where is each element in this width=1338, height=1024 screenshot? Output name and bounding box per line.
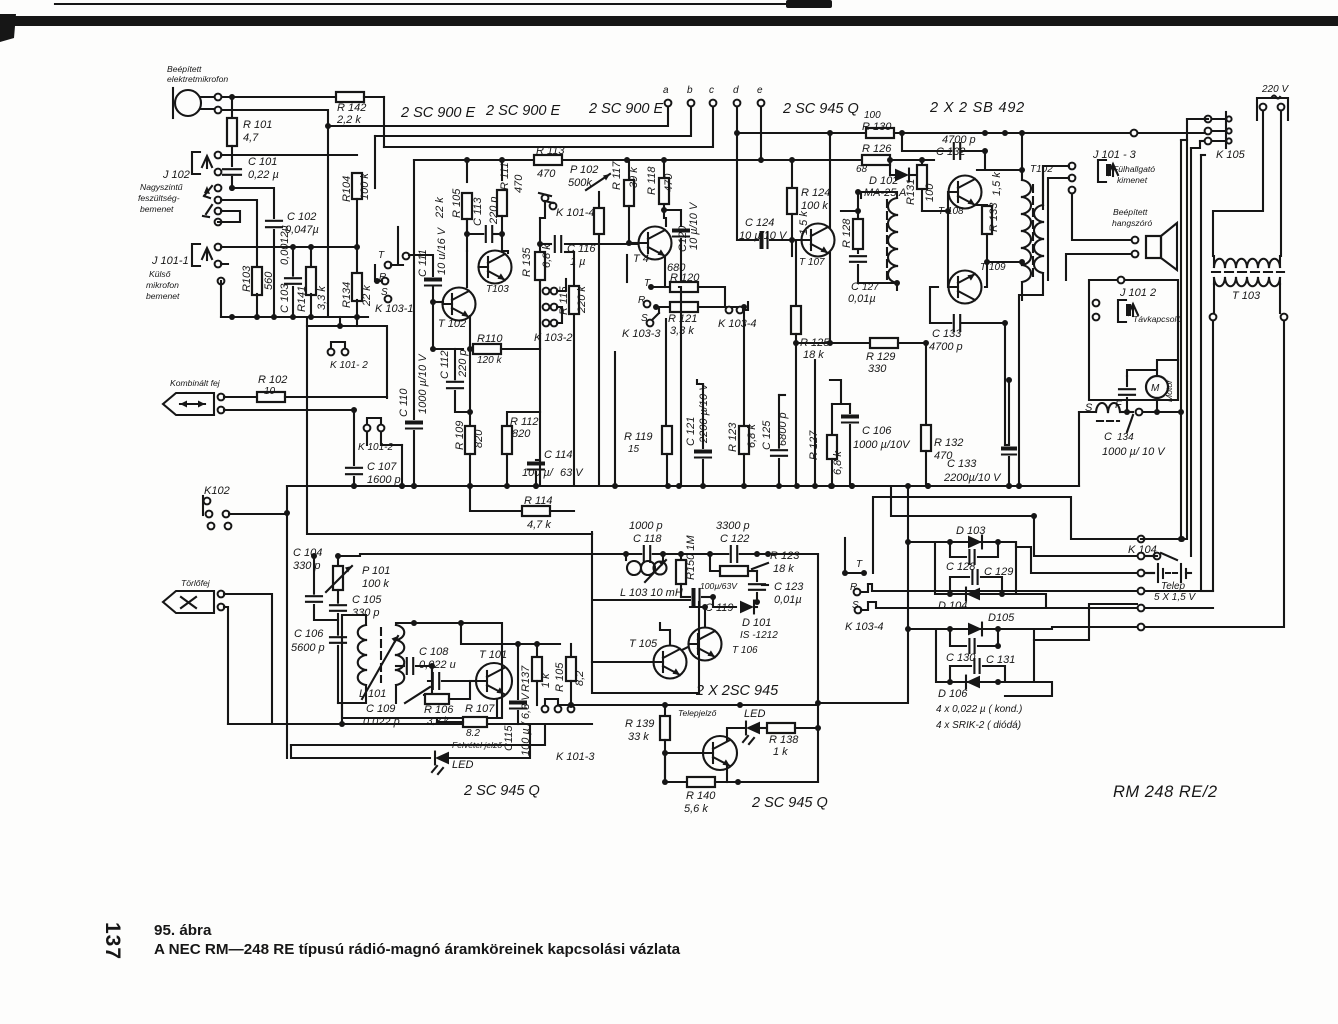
terminal e stub xyxy=(760,106,762,160)
remote jack J101-2 box xyxy=(1089,280,1178,400)
wire driver base feed xyxy=(841,210,858,212)
svg-text:6,8 k: 6,8 k xyxy=(832,451,844,475)
wire J101-3 leads xyxy=(1043,166,1069,209)
wire line-a xyxy=(328,106,668,126)
svg-text:1000 p: 1000 p xyxy=(629,520,663,532)
svg-text:C 107: C 107 xyxy=(367,461,397,473)
svg-text:C 104: C 104 xyxy=(293,547,322,559)
svg-text:C 109: C 109 xyxy=(366,703,395,715)
stair wire y497 xyxy=(873,497,1137,573)
svg-text:R 114: R 114 xyxy=(524,495,553,507)
svg-text:5 X 1,5 V: 5 X 1,5 V xyxy=(1154,592,1196,603)
svg-text:C115: C115 xyxy=(503,725,515,751)
svg-text:Telepjelző: Telepjelző xyxy=(678,708,717,718)
terminal d stub xyxy=(736,106,738,133)
page top rule (thin) xyxy=(55,3,812,5)
wire y705 battery rail xyxy=(558,704,818,706)
svg-text:100 k: 100 k xyxy=(362,578,389,590)
svg-text:C 130: C 130 xyxy=(946,652,976,664)
svg-text:470: 470 xyxy=(537,168,556,180)
capacitor C108 0,022u xyxy=(396,665,404,667)
motor xyxy=(1146,376,1168,398)
svg-text:R 112: R 112 xyxy=(510,416,539,428)
svg-text:1,5 k: 1,5 k xyxy=(798,211,810,235)
capacitor C115 100u/6,3V xyxy=(517,644,519,699)
rail3 right riser to motor xyxy=(1078,412,1080,486)
svg-text:R 140: R 140 xyxy=(686,790,716,802)
svg-text:C 112: C 112 xyxy=(439,350,451,379)
svg-text:bemenet: bemenet xyxy=(146,291,180,301)
svg-text:kimenet: kimenet xyxy=(1117,175,1148,185)
driver transformer core xyxy=(886,200,888,282)
svg-text:1 k: 1 k xyxy=(773,746,788,758)
svg-text:2200µ/10 V: 2200µ/10 V xyxy=(943,472,1002,484)
svg-text:bemenet: bemenet xyxy=(140,204,174,214)
rail4 y554 xyxy=(338,554,818,556)
resistor R109 820 xyxy=(469,412,471,426)
svg-text:100 µ/: 100 µ/ xyxy=(522,467,554,479)
resistor R139 33k xyxy=(664,705,666,716)
svg-text:R 126: R 126 xyxy=(862,143,892,155)
svg-text:C 121: C 121 xyxy=(685,417,697,446)
wire T109 collector xyxy=(985,262,987,287)
svg-text:1 k: 1 k xyxy=(540,673,552,688)
resistor R111 470 xyxy=(501,160,503,180)
resistor R134 2,2k xyxy=(356,247,358,274)
switch K101-2 upper xyxy=(328,349,335,356)
diode D101 IS-1212 xyxy=(713,597,736,607)
wire J102 tip to R104 top xyxy=(221,154,357,156)
wire K101-2 region box xyxy=(307,326,387,398)
resistor R130 100 xyxy=(737,132,866,134)
right column x1187 xyxy=(1141,119,1187,539)
transistor T106 xyxy=(689,628,722,661)
capacitor C119 100u/63V xyxy=(681,596,690,598)
svg-text:C 106: C 106 xyxy=(294,628,324,640)
svg-text:C: C xyxy=(851,281,859,293)
svg-text:T 105: T 105 xyxy=(629,638,658,650)
svg-text:820: 820 xyxy=(512,428,531,440)
svg-text:Beépített: Beépített xyxy=(167,64,202,74)
main rail y486 xyxy=(287,485,1079,487)
wire K101-4 down xyxy=(540,201,545,218)
svg-text:J 101-1: J 101-1 xyxy=(151,255,189,267)
svg-text:R 124: R 124 xyxy=(801,187,830,199)
capacitor C106b 1000u/10V xyxy=(849,404,851,413)
svg-text:R 117: R 117 xyxy=(611,161,623,190)
svg-text:470: 470 xyxy=(513,174,525,193)
svg-text:RM 248 RE/2: RM 248 RE/2 xyxy=(1113,783,1218,801)
transistor T103 xyxy=(479,251,512,284)
svg-text:100: 100 xyxy=(924,183,936,202)
svg-text:8.2: 8.2 xyxy=(466,728,480,739)
svg-text:P 101: P 101 xyxy=(362,565,390,577)
switch K104 xyxy=(1138,536,1145,543)
svg-text:T 107: T 107 xyxy=(799,257,825,268)
transistor T108 (2SB492) xyxy=(949,176,982,209)
svg-text:e: e xyxy=(757,85,763,96)
potentiometer P101 100k xyxy=(333,566,343,590)
svg-text:D 104: D 104 xyxy=(938,600,967,612)
svg-text:1600 p: 1600 p xyxy=(367,474,401,486)
transistor T4 xyxy=(639,227,672,260)
svg-text:D 103: D 103 xyxy=(956,525,986,537)
wire L101 connections xyxy=(342,615,366,724)
row y608 xyxy=(1138,605,1145,612)
svg-text:K 105: K 105 xyxy=(1216,149,1246,161)
diode D103 xyxy=(968,536,982,549)
svg-text:R 135: R 135 xyxy=(521,247,533,277)
svg-text:R 106: R 106 xyxy=(424,704,454,716)
LED battery xyxy=(664,753,666,782)
svg-text:2 SC 900 E: 2 SC 900 E xyxy=(588,101,663,117)
svg-text:Fülhallgató: Fülhallgató xyxy=(1113,164,1155,174)
svg-text:T 103: T 103 xyxy=(1232,290,1261,302)
svg-text:R 128: R 128 xyxy=(841,218,853,248)
svg-text:6800 p: 6800 p xyxy=(777,412,789,446)
svg-text:C 125: C 125 xyxy=(761,420,773,450)
ground bus bottom-left xyxy=(221,316,368,318)
svg-text:1000 µ/ 10 V: 1000 µ/ 10 V xyxy=(1102,446,1166,458)
resistor R132 470 xyxy=(925,343,927,424)
svg-text:L 103 10 mH: L 103 10 mH xyxy=(620,587,683,599)
svg-text:2200 µ/10 V: 2200 µ/10 V xyxy=(698,382,710,444)
svg-text:mikrofon: mikrofon xyxy=(146,280,179,290)
wire x615 column xyxy=(614,352,616,486)
resistor R140 5,6k xyxy=(665,753,687,782)
wire J101-1 to R134 line xyxy=(221,246,357,248)
svg-text:C 129: C 129 xyxy=(984,566,1013,578)
capacitor C116 1u xyxy=(539,218,541,244)
svg-text:R 119: R 119 xyxy=(624,431,653,443)
capacitor C101 0,22u xyxy=(231,146,233,166)
box2 stairs xyxy=(1034,604,1137,640)
svg-text:J 102: J 102 xyxy=(162,169,190,181)
svg-text:470: 470 xyxy=(934,450,953,462)
svg-text:A NEC RM—248 RE típusú rádió-m: A NEC RM—248 RE típusú rádió-magnó áramk… xyxy=(154,941,681,958)
capacitor C107 1600p xyxy=(350,466,358,475)
resistor R125 18k xyxy=(795,240,797,306)
resistor R115 220k xyxy=(573,252,575,486)
capacitor C124 10u/10V xyxy=(737,133,758,240)
resistor R131 100 xyxy=(921,160,923,163)
wire R110 node down xyxy=(469,345,471,412)
resistor R127 6,8k xyxy=(831,404,833,434)
svg-text:P 102: P 102 xyxy=(570,164,598,176)
svg-text:Külső: Külső xyxy=(149,269,171,279)
switch K101-4 xyxy=(542,195,549,202)
svg-text:C 116: C 116 xyxy=(567,243,596,255)
resistor R120 xyxy=(653,286,670,288)
svg-text:63 V: 63 V xyxy=(560,467,584,479)
battery indicator top rail xyxy=(817,554,819,705)
resistor R123 6,8k xyxy=(743,307,745,426)
svg-text:c: c xyxy=(709,85,714,96)
rail4 y556 with P101 branch xyxy=(337,556,339,566)
svg-text:C 113: C 113 xyxy=(472,197,484,226)
wire 220V left down xyxy=(1213,111,1263,256)
resistor R104 100k xyxy=(352,173,362,199)
svg-text:b: b xyxy=(687,85,693,96)
long verticals bottom right xyxy=(1201,590,1213,592)
svg-text:K 103-4: K 103-4 xyxy=(845,621,884,633)
wire T106 collector to y554 xyxy=(704,607,706,627)
svg-text:R 139: R 139 xyxy=(625,718,654,730)
wire output transformer taps xyxy=(1021,133,1023,180)
wire osc collector line y644 xyxy=(461,623,560,644)
diode D106 xyxy=(966,676,980,689)
svg-text:68: 68 xyxy=(856,164,868,175)
svg-text:K 103-2: K 103-2 xyxy=(534,332,573,344)
LED record indicator xyxy=(435,752,449,765)
svg-text:10: 10 xyxy=(264,386,276,397)
svg-text:Törlőfej: Törlőfej xyxy=(181,578,211,588)
transistor T109 (2SB492) xyxy=(949,271,982,304)
svg-text:1000 µ/10V: 1000 µ/10V xyxy=(853,439,911,451)
svg-text:C 101: C 101 xyxy=(248,156,277,168)
wire y745 line xyxy=(291,724,545,745)
svg-text:100µ/63V: 100µ/63V xyxy=(700,581,738,591)
svg-text:10 µ/10 V: 10 µ/10 V xyxy=(739,230,788,242)
svg-text:C 132: C 132 xyxy=(936,146,965,158)
resistor R123b 18k xyxy=(710,554,720,571)
svg-text:T103: T103 xyxy=(486,284,509,295)
wire y534 line xyxy=(307,317,592,534)
wire mic return (long vertical) xyxy=(222,110,328,317)
svg-text:Motor: Motor xyxy=(1164,379,1174,402)
svg-text:LED: LED xyxy=(452,759,473,771)
svg-text:4700 p: 4700 p xyxy=(942,134,976,146)
svg-text:R 105: R 105 xyxy=(554,662,566,692)
svg-text:4,7 k: 4,7 k xyxy=(527,519,551,531)
resistor R117 39k xyxy=(628,160,630,180)
svg-text:R 130: R 130 xyxy=(862,121,892,133)
svg-text:2 X 2SC 945: 2 X 2SC 945 xyxy=(695,683,779,699)
wire y532 line xyxy=(308,533,592,535)
wire T105 collector xyxy=(660,623,670,645)
svg-text:R 123: R 123 xyxy=(727,422,739,452)
svg-text:2 SC 945 Q: 2 SC 945 Q xyxy=(782,101,859,117)
svg-text:T 102: T 102 xyxy=(438,318,466,330)
svg-text:2 X 2 SB 492: 2 X 2 SB 492 xyxy=(929,100,1025,116)
wire T102 emitter down xyxy=(469,316,471,345)
capacitor C120 10u/10V xyxy=(664,210,681,226)
svg-text:Kombinált fej: Kombinált fej xyxy=(170,378,221,388)
svg-text:R 121: R 121 xyxy=(668,313,697,325)
svg-text:T: T xyxy=(378,250,385,261)
svg-text:820: 820 xyxy=(473,429,485,448)
right column x1201 xyxy=(1200,155,1202,591)
switch K103-3 xyxy=(626,255,628,282)
resistor R137 1k xyxy=(536,644,538,656)
svg-text:R 113: R 113 xyxy=(536,145,565,157)
svg-text:1,5 k: 1,5 k xyxy=(991,172,1003,196)
transistor T101 xyxy=(476,663,512,699)
svg-text:10 µ/10 V: 10 µ/10 V xyxy=(688,201,700,250)
svg-text:0,01µ: 0,01µ xyxy=(848,293,876,305)
jack J102 xyxy=(192,152,200,174)
capacitor C112 220p xyxy=(454,349,456,380)
svg-text:D 106: D 106 xyxy=(938,688,968,700)
svg-text:6,8 k: 6,8 k xyxy=(541,244,553,268)
label 5x1,5V xyxy=(1138,588,1145,595)
motor top lead xyxy=(1127,370,1157,376)
wire T107 emitter xyxy=(829,253,831,343)
right column x1191 xyxy=(1190,148,1192,556)
mains transformer T103 secondary xyxy=(1214,278,1225,286)
switch K101-3 xyxy=(542,706,549,713)
svg-text:K 101-3: K 101-3 xyxy=(556,751,595,763)
wire mic to R142 xyxy=(222,96,336,98)
capacitor C118 1000p xyxy=(642,550,651,558)
switch K103-1 xyxy=(397,227,399,264)
inductor L103 10mH xyxy=(625,554,627,560)
svg-text:C 102: C 102 xyxy=(287,211,316,223)
switch K105 xyxy=(1205,116,1212,123)
svg-text:T 101: T 101 xyxy=(479,649,507,661)
K105 feeds xyxy=(1187,118,1204,120)
svg-text:8,2: 8,2 xyxy=(574,671,586,686)
wire T107 collector xyxy=(829,133,831,228)
svg-text:T: T xyxy=(856,559,863,570)
svg-text:15: 15 xyxy=(628,444,640,455)
svg-text:2,2 k: 2,2 k xyxy=(336,114,361,126)
svg-text:R 142: R 142 xyxy=(337,102,366,114)
resistor R129 330 xyxy=(870,338,898,348)
svg-text:C 131: C 131 xyxy=(986,654,1015,666)
supply rail2 y160 xyxy=(414,159,934,161)
svg-text:C 103: C 103 xyxy=(279,283,291,313)
svg-text:K 103-1: K 103-1 xyxy=(375,303,414,315)
svg-text:K 103-3: K 103-3 xyxy=(622,328,661,340)
svg-text:R 101: R 101 xyxy=(243,119,272,131)
wire R129 line xyxy=(796,342,870,344)
wire K102 riser xyxy=(286,486,288,758)
svg-text:IS -1212: IS -1212 xyxy=(740,630,778,641)
resistor R128 box xyxy=(853,219,863,249)
svg-text:R104: R104 xyxy=(341,176,353,202)
capacitor C103 0,0012u xyxy=(292,247,294,276)
wire 220V right down xyxy=(1280,111,1282,256)
svg-text:K 103-4: K 103-4 xyxy=(718,318,757,330)
mains transformer T103 primary xyxy=(1214,259,1225,267)
wire J102 c2 to R103 xyxy=(221,200,257,269)
svg-text:127: 127 xyxy=(862,282,879,293)
svg-text:1000 µ/10 V: 1000 µ/10 V xyxy=(417,353,429,414)
capacitor C129 xyxy=(950,577,969,594)
column x1181 down xyxy=(1180,140,1182,539)
svg-text:R 118: R 118 xyxy=(646,166,658,195)
svg-text:R110: R110 xyxy=(477,333,503,345)
svg-text:3,3 k: 3,3 k xyxy=(316,286,328,310)
wire R142 to c-line xyxy=(383,97,385,147)
svg-text:R134: R134 xyxy=(341,282,353,308)
wire T4 emitter xyxy=(664,256,666,287)
svg-text:137: 137 xyxy=(101,922,124,960)
svg-text:C 108: C 108 xyxy=(419,646,449,658)
wire x908 column xyxy=(818,486,908,703)
resistor R110 120k xyxy=(433,348,463,350)
capacitor C128 xyxy=(950,542,966,557)
svg-text:C 111: C 111 xyxy=(417,249,429,277)
wire J102 c3 xyxy=(218,211,240,222)
svg-text:Nagyszintű: Nagyszintű xyxy=(140,182,183,192)
svg-text:100 k: 100 k xyxy=(359,173,371,200)
svg-text:C 114: C 114 xyxy=(544,449,573,461)
svg-text:560: 560 xyxy=(263,271,275,290)
transistor T107 xyxy=(802,224,835,257)
resistor R119 15 xyxy=(665,319,667,426)
svg-text:220 V: 220 V xyxy=(1261,84,1289,95)
svg-text:18 k: 18 k xyxy=(773,563,794,575)
svg-text:100 k: 100 k xyxy=(801,200,828,212)
svg-text:10 u/16 V: 10 u/16 V xyxy=(436,226,448,275)
resistor R124 100k xyxy=(791,160,793,188)
wire LED row y758 xyxy=(291,745,430,758)
resistor R128 1,5k xyxy=(791,240,793,256)
svg-text:4 x 0,022 µ ( kond.): 4 x 0,022 µ ( kond.) xyxy=(936,704,1022,715)
svg-text:Távkapcsoló: Távkapcsoló xyxy=(1133,314,1181,324)
svg-text:22 k: 22 k xyxy=(361,285,373,307)
svg-text:C 118: C 118 xyxy=(633,533,662,545)
resistor R106 33k xyxy=(424,666,432,695)
capacitor C114 100u/63V xyxy=(536,459,540,461)
svg-text:C 106: C 106 xyxy=(862,425,892,437)
svg-text:22 k: 22 k xyxy=(434,197,446,219)
svg-text:C 122: C 122 xyxy=(720,533,749,545)
capacitor C102 0,047u xyxy=(232,188,274,218)
svg-text:elektretmikrofon: elektretmikrofon xyxy=(167,74,228,84)
svg-text:470: 470 xyxy=(663,173,675,192)
capacitor C125 6800p xyxy=(778,395,780,448)
svg-text:R137: R137 xyxy=(520,665,532,692)
capacitor C111 10u/16V xyxy=(409,255,433,277)
battery Telep xyxy=(1138,570,1145,577)
resistor R142 2,2k xyxy=(336,92,364,102)
wire C111 to T102 base xyxy=(433,301,443,303)
capacitor C106 5600p xyxy=(334,636,342,645)
diode box1 outline xyxy=(908,541,935,543)
row y627 xyxy=(1138,624,1145,631)
svg-text:C 110: C 110 xyxy=(398,388,410,417)
svg-text:R141: R141 xyxy=(296,286,308,312)
wire line-b xyxy=(375,106,691,136)
svg-text:Beépített: Beépített xyxy=(1113,207,1148,217)
svg-text:18 k: 18 k xyxy=(803,349,824,361)
motor cap C134 xyxy=(1126,376,1128,386)
svg-text:3300 p: 3300 p xyxy=(716,520,750,532)
T103 core xyxy=(1212,271,1284,273)
wire bottom long y724 xyxy=(228,723,592,725)
svg-text:hangszóró: hangszóró xyxy=(1112,218,1152,228)
svg-text:T 106: T 106 xyxy=(732,645,758,656)
svg-text:R 120: R 120 xyxy=(670,272,700,284)
svg-text:330 p: 330 p xyxy=(293,560,321,572)
svg-text:C: C xyxy=(1104,431,1112,443)
svg-text:33 k: 33 k xyxy=(628,731,649,743)
J102 switching contacts xyxy=(204,186,212,198)
capacitor C131 xyxy=(950,666,971,682)
svg-text:220 p: 220 p xyxy=(457,349,469,378)
diode box2 outline xyxy=(908,628,936,630)
svg-text:R 102: R 102 xyxy=(258,374,287,386)
svg-text:J 101 2: J 101 2 xyxy=(1119,287,1156,299)
resistor R135 6,8k xyxy=(535,252,545,280)
svg-text:C 105: C 105 xyxy=(352,594,382,606)
svg-text:R131: R131 xyxy=(905,179,917,205)
svg-text:0,0012µ: 0,0012µ xyxy=(279,225,291,265)
svg-text:4700 p: 4700 p xyxy=(929,341,963,353)
